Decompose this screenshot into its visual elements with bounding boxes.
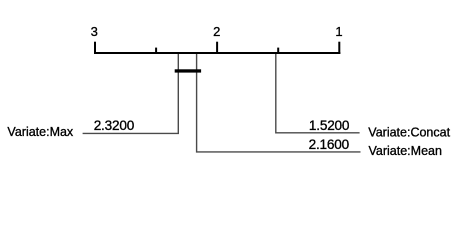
svg-text:1.5200: 1.5200 [309, 118, 350, 133]
svg-text:1: 1 [335, 24, 342, 39]
svg-text:2: 2 [213, 24, 220, 39]
svg-text:2.1600: 2.1600 [309, 137, 350, 152]
svg-text:3: 3 [91, 24, 98, 39]
svg-text:Variate:Concat: Variate:Concat [368, 125, 450, 139]
svg-text:Variate:Max: Variate:Max [7, 125, 74, 139]
svg-text:Variate:Mean: Variate:Mean [369, 144, 442, 158]
svg-text:2.3200: 2.3200 [94, 118, 135, 133]
